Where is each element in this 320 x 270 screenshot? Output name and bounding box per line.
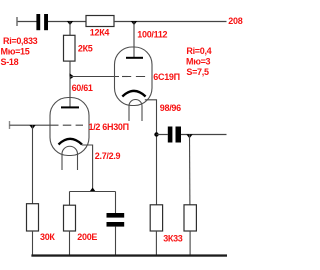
svg-text:S=7,5: S=7,5 bbox=[186, 67, 209, 77]
wire 2К5 to grid node bbox=[69, 61, 71, 76]
capacitor bypass bbox=[107, 213, 125, 227]
wire C2 to right end bbox=[181, 134, 227, 136]
wire bypass cap to ground bus bbox=[115, 227, 117, 256]
node junction at 2К5 top bbox=[67, 21, 73, 25]
svg-text:60/61: 60/61 bbox=[72, 83, 93, 93]
svg-text:S-18: S-18 bbox=[1, 57, 19, 67]
svg-text:2.7/2.9: 2.7/2.9 bbox=[95, 151, 121, 161]
wire load resistor to ground bus bbox=[189, 231, 191, 256]
wire cathode network horizontal bbox=[70, 191, 116, 193]
anode bar U1 bbox=[61, 106, 79, 108]
node junction output tap bbox=[154, 132, 158, 136]
heater lead U1 right bbox=[77, 154, 79, 170]
heater lead U1 left bbox=[61, 154, 63, 170]
grid dashes U1 bbox=[50, 124, 83, 126]
ground bus bbox=[31, 254, 227, 256]
wire 200Е to ground bus bbox=[69, 231, 71, 256]
wire 30К to ground bus bbox=[32, 231, 34, 256]
wire anode column to U2 bbox=[133, 22, 135, 58]
wire 3К33 to ground bus bbox=[155, 231, 157, 256]
heater lead U2 left bbox=[128, 106, 130, 121]
svg-text:100/112: 100/112 bbox=[137, 29, 167, 39]
cathode arc U2 bbox=[122, 91, 145, 97]
wire down to 200Е bbox=[69, 192, 71, 206]
wire R 12К4 to right end bbox=[114, 21, 227, 23]
wire grid node to U2 grid bbox=[70, 76, 119, 78]
cathode arc U1 bbox=[59, 139, 83, 145]
wire down to load resistor bbox=[189, 135, 191, 205]
grid dashes U2 bbox=[122, 76, 146, 78]
input terminal tick (grid) bbox=[9, 121, 11, 129]
heater lead U2 right bbox=[141, 106, 143, 121]
svg-text:Мю=3: Мю=3 bbox=[186, 56, 211, 66]
svg-text:30К: 30К bbox=[40, 232, 55, 242]
wire top to 2К5 bbox=[69, 22, 71, 36]
svg-text:6С19П: 6С19П bbox=[153, 72, 180, 82]
node junction at 30К bbox=[29, 125, 35, 129]
svg-text:208: 208 bbox=[228, 16, 242, 26]
wire down to bypass cap bbox=[115, 192, 117, 214]
node junction at anode column bbox=[131, 21, 137, 25]
heater arch U2 bbox=[129, 100, 142, 106]
svg-text:Мю=15: Мю=15 bbox=[1, 46, 30, 56]
triode U1 envelope (1/2 6Н30П) bbox=[50, 98, 89, 156]
triode U2 envelope (6С19П) bbox=[115, 47, 153, 106]
capacitor C2 (output coupling) bbox=[168, 127, 181, 143]
node junction load tap bbox=[186, 134, 192, 138]
svg-text:98/96: 98/96 bbox=[160, 103, 181, 113]
resistor 2К5 bbox=[64, 35, 76, 61]
wire down to 30К bbox=[32, 125, 34, 204]
cathode wire U1 bbox=[82, 145, 93, 192]
wire C1 to R 12К4 bbox=[48, 21, 86, 23]
capacitor C1 (input coupling) bbox=[36, 14, 48, 30]
svg-text:3К33: 3К33 bbox=[163, 234, 183, 244]
svg-text:Ri=0,833: Ri=0,833 bbox=[3, 36, 38, 46]
anode bar U2 bbox=[126, 57, 143, 59]
node junction cathode network bbox=[89, 188, 95, 192]
wire input to U1 grid bbox=[10, 124, 51, 126]
resistor 200Е bbox=[64, 205, 76, 231]
node junction grid of U2 bbox=[70, 73, 75, 79]
svg-text:Ri=0,4: Ri=0,4 bbox=[186, 46, 211, 56]
resistor load (right) bbox=[184, 205, 196, 231]
svg-text:200Е: 200Е bbox=[77, 232, 97, 242]
heater arch U1 bbox=[62, 146, 78, 154]
input terminal tick bbox=[16, 17, 18, 26]
svg-text:12К4: 12К4 bbox=[90, 28, 110, 38]
svg-text:2К5: 2К5 bbox=[78, 44, 93, 54]
wire grid node down to U1 anode bbox=[69, 77, 71, 107]
resistor 3К33 bbox=[150, 205, 162, 231]
resistor 12К4 bbox=[86, 16, 114, 27]
svg-text:1/2 6Н30П: 1/2 6Н30П bbox=[89, 122, 129, 132]
wire output to C2 bbox=[157, 134, 168, 136]
cathode wire U2 bbox=[145, 100, 157, 205]
resistor 30К bbox=[27, 204, 39, 231]
wire input to C1 bbox=[18, 21, 37, 23]
